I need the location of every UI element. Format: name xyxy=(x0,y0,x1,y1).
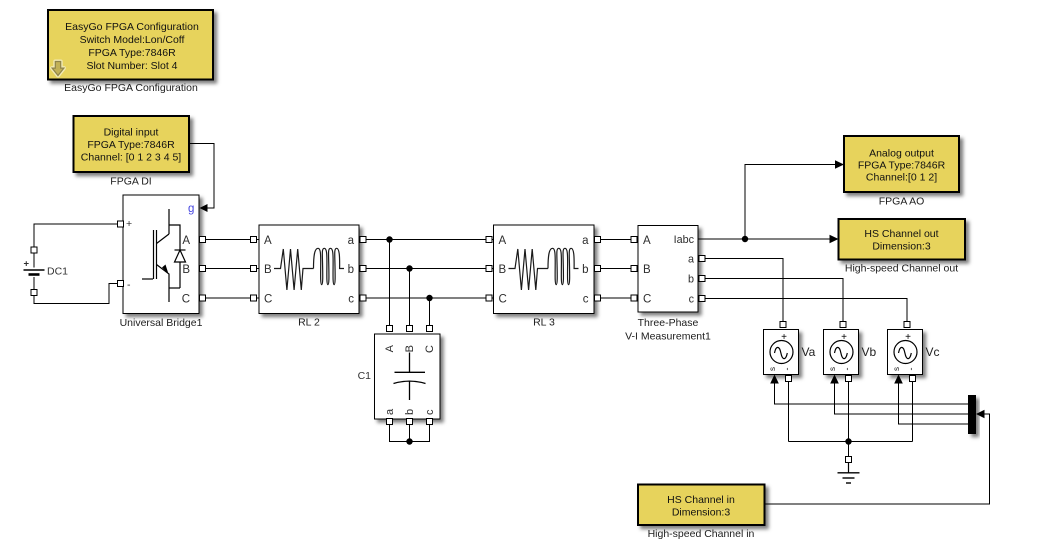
wire to ground port xyxy=(848,442,850,458)
port RL2 c xyxy=(360,295,366,301)
port RL3 c xyxy=(595,295,601,301)
svg-text:HS Channel out: HS Channel out xyxy=(864,228,938,240)
svg-text:-: - xyxy=(782,368,792,371)
wire RL3 b to meas B xyxy=(594,268,638,270)
port RL2 C xyxy=(251,295,257,301)
port Va + xyxy=(780,322,786,328)
junction dot c xyxy=(426,295,432,301)
svg-text:a: a xyxy=(688,254,694,266)
svg-text:Channel: [0 1 2 3 4 5]: Channel: [0 1 2 3 4 5] xyxy=(81,152,181,164)
svg-text:s: s xyxy=(768,367,777,371)
arrowhead into HS Channel out xyxy=(830,235,839,244)
svg-text:c: c xyxy=(424,409,436,415)
port C1 b xyxy=(407,419,413,425)
wire FPGA DI to g port xyxy=(189,144,214,209)
download arrow icon xyxy=(52,62,64,76)
battery DC1 xyxy=(24,250,69,293)
junction dot C1 short xyxy=(406,438,412,444)
block EasyGo FPGA Configuration xyxy=(48,10,213,94)
wire RL2 b to RL3 B xyxy=(359,268,494,270)
source Va xyxy=(764,330,816,375)
arrowhead Vc s input xyxy=(894,375,903,384)
svg-text:FPGA AO: FPGA AO xyxy=(879,196,925,208)
wire meas c to Vc top xyxy=(698,299,907,323)
port C1 B xyxy=(407,326,413,332)
wire RL2 c to RL3 C xyxy=(359,297,494,299)
svg-text:b: b xyxy=(688,274,694,286)
port Va - xyxy=(786,376,792,382)
wire RL2 a to RL3 A xyxy=(359,239,494,241)
wire HS Channel in to demux xyxy=(765,414,990,504)
svg-text:A: A xyxy=(499,235,507,247)
svg-text:Vb: Vb xyxy=(862,345,877,359)
port Universal Bridge1 A xyxy=(200,237,206,243)
port RL3 b xyxy=(595,266,601,272)
wire Iabc to HS Channel out xyxy=(698,238,831,240)
wire node c down to C1 C xyxy=(429,298,431,327)
svg-text:a: a xyxy=(384,408,396,415)
ground symbol xyxy=(838,462,860,483)
port Universal Bridge1 C xyxy=(200,295,206,301)
svg-text:RL 2: RL 2 xyxy=(298,317,320,329)
svg-text:A: A xyxy=(643,235,651,247)
resistor and inductor xyxy=(509,248,579,290)
svg-text:FPGA DI: FPGA DI xyxy=(110,176,151,188)
port RL2 B xyxy=(251,266,257,272)
svg-text:s: s xyxy=(828,367,837,371)
source Vc xyxy=(888,330,940,375)
svg-text:Analog output: Analog output xyxy=(869,148,934,160)
svg-text:c: c xyxy=(348,294,354,306)
junction dot Iabc xyxy=(742,236,748,242)
block Universal Bridge1 xyxy=(120,195,203,329)
junction dot minus bus xyxy=(845,438,851,444)
svg-text:EasyGo FPGA Configuration: EasyGo FPGA Configuration xyxy=(64,82,198,94)
wire meas b to Vb top xyxy=(698,279,843,323)
svg-text:b: b xyxy=(348,264,354,276)
port C1 A xyxy=(387,326,393,332)
block FPGA AO xyxy=(844,136,959,208)
svg-text:High-speed Channel out: High-speed Channel out xyxy=(845,263,958,275)
svg-text:FPGA Type:7846R: FPGA Type:7846R xyxy=(87,139,175,151)
wire Vc minus down xyxy=(912,375,914,442)
block HS Channel in xyxy=(638,485,765,541)
port Ground xyxy=(846,457,852,463)
wire C1 b short xyxy=(409,424,411,442)
svg-text:-: - xyxy=(906,368,916,371)
port Vc - xyxy=(910,376,916,382)
svg-text:c: c xyxy=(689,294,695,306)
svg-text:+: + xyxy=(24,259,30,270)
demux bar xyxy=(968,395,976,434)
wire DC1 minus to bridge xyxy=(34,284,121,304)
wire demux out2 to Vb s xyxy=(835,380,969,414)
wire node a down to C1 A xyxy=(389,240,391,328)
block FPGA DI xyxy=(74,116,190,188)
svg-text:V-I Measurement1: V-I Measurement1 xyxy=(625,331,711,343)
wire bridge B to RL2 B xyxy=(199,268,259,270)
port RL2 A xyxy=(251,237,257,243)
svg-text:B: B xyxy=(264,264,272,276)
wire demux out1 to Va s xyxy=(775,380,969,404)
port RL3 A xyxy=(486,237,492,243)
port RL2 b xyxy=(360,266,366,272)
port DC1 + xyxy=(31,247,37,253)
port Vb - xyxy=(846,376,852,382)
port measurement C xyxy=(631,295,637,301)
wire bridge A to RL2 A xyxy=(199,239,259,241)
port measurement b xyxy=(699,276,705,282)
wire DC1 plus to bridge xyxy=(34,224,121,250)
resistor and inductor xyxy=(274,248,344,290)
svg-text:Universal Bridge1: Universal Bridge1 xyxy=(120,317,203,329)
IGBT symbol xyxy=(142,209,186,302)
junction dot a xyxy=(386,236,392,242)
svg-text:-: - xyxy=(127,279,131,291)
port measurement B xyxy=(631,266,637,272)
port measurement a xyxy=(699,256,705,262)
svg-text:B: B xyxy=(182,264,190,276)
svg-text:EasyGo FPGA Configuration: EasyGo FPGA Configuration xyxy=(65,21,199,33)
port Universal Bridge1 B xyxy=(200,266,206,272)
svg-text:b: b xyxy=(582,264,588,276)
svg-text:C: C xyxy=(264,294,272,306)
svg-text:FPGA Type:7846R: FPGA Type:7846R xyxy=(858,160,946,172)
port Universal Bridge1 + xyxy=(118,221,124,227)
port C1 c xyxy=(427,419,433,425)
svg-text:Dimension:3: Dimension:3 xyxy=(672,507,731,519)
wire C1 c short xyxy=(410,424,430,442)
svg-text:DC1: DC1 xyxy=(47,266,68,278)
block Three-Phase V-I Measurement1 xyxy=(625,226,711,343)
wire RL3 c to meas C xyxy=(594,297,638,299)
svg-text:B: B xyxy=(499,264,507,276)
port C1 C xyxy=(427,326,433,332)
block RL 2 xyxy=(259,225,359,329)
arrowhead g xyxy=(200,204,208,212)
svg-text:Iabc: Iabc xyxy=(674,234,695,246)
svg-text:Channel:[0 1 2]: Channel:[0 1 2] xyxy=(866,172,937,184)
wire Iabc branch to FPGA AO xyxy=(745,165,837,240)
svg-text:s: s xyxy=(892,367,901,371)
svg-text:Switch Model:Lon/Coff: Switch Model:Lon/Coff xyxy=(80,34,185,46)
svg-text:Three-Phase: Three-Phase xyxy=(638,317,699,329)
port measurement A xyxy=(631,237,637,243)
svg-text:Vc: Vc xyxy=(926,345,940,359)
svg-text:Slot Number: Slot 4: Slot Number: Slot 4 xyxy=(86,60,177,72)
port RL2 a xyxy=(360,237,366,243)
svg-text:Digital input: Digital input xyxy=(104,127,159,139)
svg-text:A: A xyxy=(182,235,190,247)
svg-text:A: A xyxy=(264,235,272,247)
svg-text:B: B xyxy=(643,264,651,276)
port DC1 - xyxy=(31,290,37,296)
wire meas a to Va top xyxy=(698,259,783,323)
block RL 3 xyxy=(494,225,595,329)
svg-text:B: B xyxy=(404,345,416,352)
svg-text:b: b xyxy=(404,409,416,415)
wire bridge C to RL2 C xyxy=(199,297,259,299)
port RL3 B xyxy=(486,266,492,272)
wire C1 a short xyxy=(390,424,410,442)
svg-text:C: C xyxy=(424,345,436,353)
svg-text:FPGA Type:7846R: FPGA Type:7846R xyxy=(88,47,176,59)
svg-text:a: a xyxy=(348,235,355,247)
wire RL3 a to meas A xyxy=(594,239,638,241)
wire Vb minus down xyxy=(848,375,850,442)
port measurement c xyxy=(699,296,705,302)
svg-text:C: C xyxy=(182,294,190,306)
arrowhead into FPGA AO xyxy=(835,160,844,169)
block C1 three-phase capacitor xyxy=(358,334,440,419)
capacitor symbol xyxy=(394,353,426,401)
svg-text:HS Channel in: HS Channel in xyxy=(667,494,735,506)
source Vb xyxy=(824,330,877,375)
svg-text:High-speed Channel in: High-speed Channel in xyxy=(648,528,755,540)
arrowhead Va s input xyxy=(770,375,779,384)
wire node b down to C1 B xyxy=(409,269,411,328)
svg-text:+: + xyxy=(126,218,132,230)
svg-text:C: C xyxy=(499,294,507,306)
port Vb + xyxy=(840,322,846,328)
svg-text:g: g xyxy=(188,203,194,215)
port RL3 a xyxy=(595,237,601,243)
port Vc + xyxy=(904,322,910,328)
arrowhead Vb s input xyxy=(830,375,839,384)
port RL3 C xyxy=(486,295,492,301)
svg-text:RL 3: RL 3 xyxy=(533,317,555,329)
port Universal Bridge1 - xyxy=(118,281,124,287)
svg-text:C1: C1 xyxy=(358,370,372,382)
block HS Channel out xyxy=(839,219,966,275)
svg-text:-: - xyxy=(842,368,852,371)
arrowhead demux input xyxy=(976,410,985,419)
wire minus bus xyxy=(789,441,913,443)
svg-text:C: C xyxy=(643,294,651,306)
wire demux out3 to Vc s xyxy=(899,380,969,424)
svg-text:Dimension:3: Dimension:3 xyxy=(872,241,931,253)
svg-text:a: a xyxy=(582,235,589,247)
wire Va minus down xyxy=(788,375,790,442)
svg-text:c: c xyxy=(583,294,589,306)
junction dot b xyxy=(406,265,412,271)
svg-text:Va: Va xyxy=(802,345,816,359)
svg-text:A: A xyxy=(384,344,396,352)
port C1 a xyxy=(387,419,393,425)
